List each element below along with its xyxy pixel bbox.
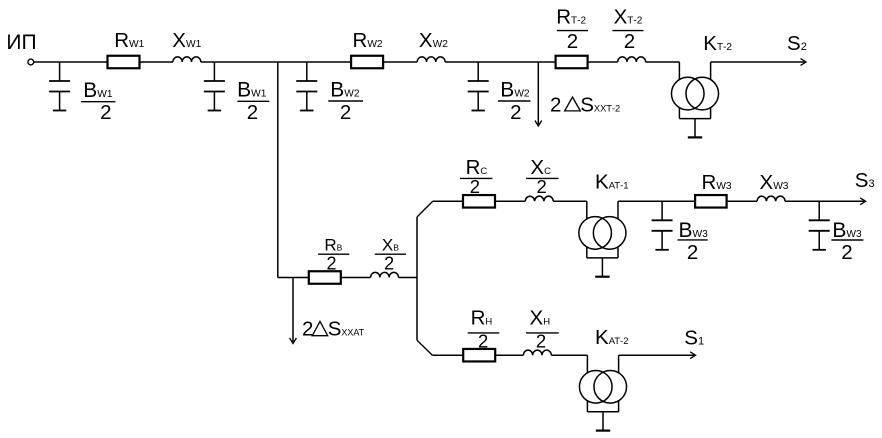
wire [618, 200, 695, 202]
svg-text:2: 2 [567, 30, 578, 53]
terminal circle [28, 59, 34, 65]
wire (S2 output) [711, 61, 805, 63]
wire [432, 354, 463, 356]
svg-text:2: 2 [624, 30, 635, 53]
wire [34, 61, 108, 63]
wire [399, 277, 418, 279]
arrow S3 [860, 198, 866, 205]
wire [341, 277, 371, 279]
inductor XW1 [173, 57, 201, 62]
arrow 2ΔSххат [290, 338, 297, 344]
transformer KАТ-2 [579, 355, 626, 430]
resistor RW1 [108, 56, 140, 69]
transformer KАТ-1 [579, 201, 626, 276]
wire (branch junction vertical) [416, 217, 418, 340]
capacitor BW2/2 (right) [468, 62, 489, 111]
wire [495, 200, 525, 202]
wire [201, 61, 351, 63]
wire (arrow stem 2dSxxT-2) [537, 62, 539, 125]
wire [140, 61, 173, 63]
resistor RС/2 [463, 195, 495, 208]
inductor XН/2 [523, 350, 551, 355]
svg-text:2: 2 [326, 253, 336, 273]
svg-text:2: 2 [550, 93, 561, 116]
ground (KАТ-2) [596, 430, 610, 432]
wire [433, 200, 463, 202]
arrow S1 [690, 352, 696, 359]
wire (vertical trunk) [277, 62, 279, 278]
wire [495, 354, 523, 356]
capacitor BW1/2 (left) [49, 62, 70, 111]
ground (KАТ-1) [595, 276, 609, 278]
svg-text:2: 2 [470, 176, 480, 197]
wire [445, 61, 555, 63]
resistor RВ/2 [309, 271, 341, 284]
wire [383, 61, 417, 63]
capacitor BW3/2 (right) [809, 201, 830, 250]
inductor XВ/2 [371, 272, 399, 277]
svg-text:2: 2 [536, 330, 546, 351]
svg-text:2: 2 [510, 101, 521, 124]
svg-text:ИП: ИП [6, 31, 36, 54]
svg-text:2: 2 [687, 241, 698, 264]
svg-text:2: 2 [841, 241, 852, 264]
capacitor BW3/2 (left) [652, 201, 673, 250]
wire [646, 61, 680, 63]
capacitor BW1/2 (right) [204, 62, 225, 111]
inductor XW2 [417, 57, 445, 62]
wire [553, 200, 587, 202]
resistor RT-2/2 [556, 56, 588, 69]
wire (diagonal to bottom branch) [417, 340, 432, 355]
wire [588, 61, 618, 63]
svg-text:2: 2 [384, 253, 394, 273]
inductor XW3 [757, 196, 785, 201]
svg-text:2: 2 [340, 101, 351, 124]
inductor XT-2/2 [618, 57, 646, 62]
svg-text:2: 2 [247, 101, 258, 124]
svg-text:2: 2 [478, 330, 488, 351]
svg-text:2: 2 [536, 176, 546, 197]
wire (diagonal to middle branch) [417, 201, 433, 217]
wire (S3 output) [785, 200, 864, 202]
wire [727, 200, 758, 202]
svg-text:2: 2 [302, 318, 313, 341]
svg-text:2: 2 [100, 101, 111, 124]
arrow 2ΔSххт-2 [535, 121, 542, 127]
wire [278, 277, 309, 279]
resistor RW3 [695, 195, 727, 208]
resistor RW2 [351, 56, 383, 69]
arrow S2 [801, 59, 807, 66]
wire (S1 output) [619, 354, 694, 356]
capacitor BW2/2 (left) [296, 62, 317, 111]
inductor XС/2 [525, 196, 553, 201]
transformer KT-2 [671, 62, 718, 137]
wire (arrow stem 2dSxxAT) [292, 278, 294, 343]
wire [551, 354, 587, 356]
resistor RН/2 [463, 349, 495, 362]
ground (KT-2) [688, 136, 702, 138]
